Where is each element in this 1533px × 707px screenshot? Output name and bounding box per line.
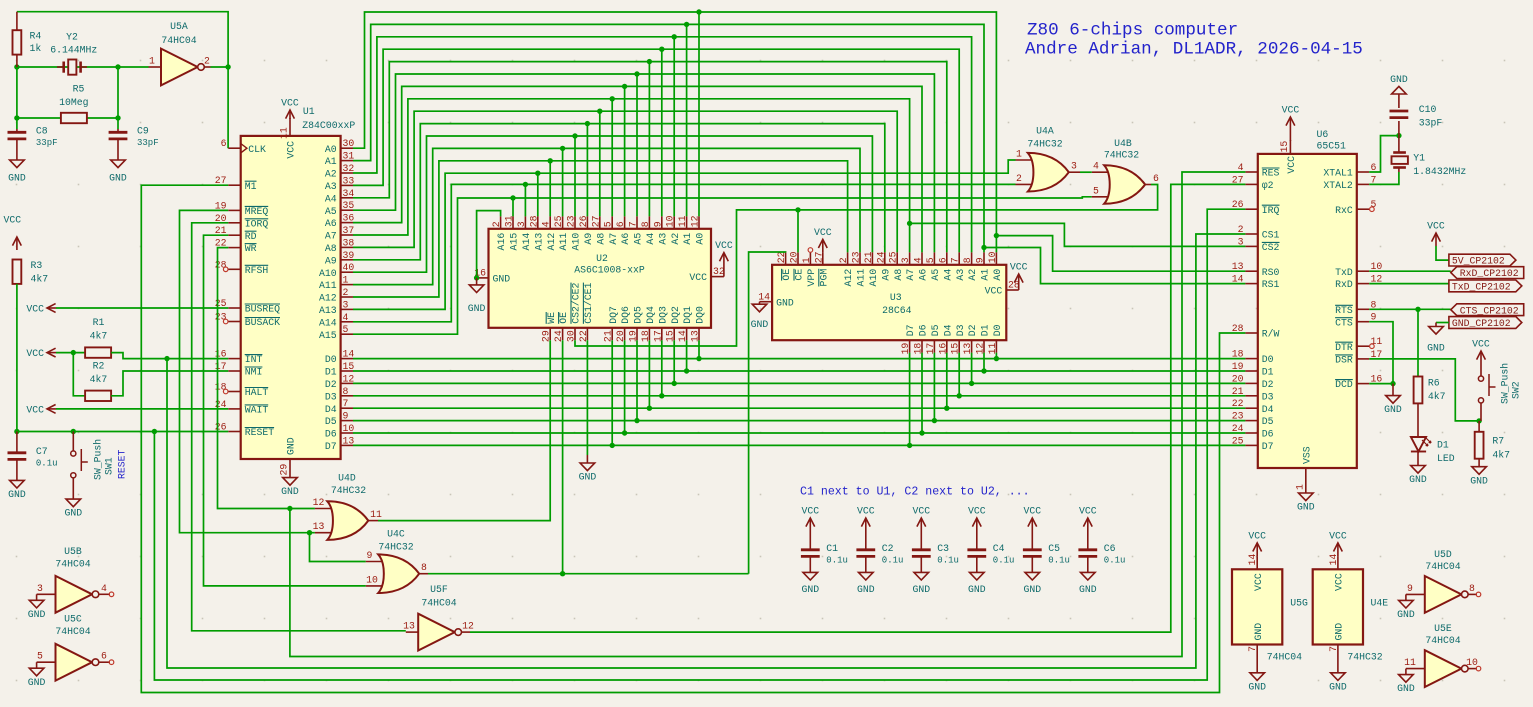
power VCC BUSREQ	[47, 307, 56, 309]
wire A13 bus	[353, 160, 1016, 309]
svg-text:U5A: U5A	[170, 21, 188, 32]
svg-text:20: 20	[1232, 373, 1244, 384]
svg-text:R7: R7	[1492, 436, 1504, 447]
svg-text:A11: A11	[856, 269, 867, 287]
svg-text:1: 1	[1016, 149, 1022, 160]
svg-text:1.8432MHz: 1.8432MHz	[1413, 166, 1466, 177]
svg-text:A1: A1	[980, 269, 991, 281]
wire RxD	[1369, 283, 1449, 285]
wire XTAL2	[1369, 172, 1399, 184]
svg-text:A14: A14	[319, 317, 337, 328]
svg-text:WAIT: WAIT	[245, 405, 269, 416]
svg-text:4k7: 4k7	[1428, 391, 1446, 402]
svg-text:D6: D6	[325, 429, 337, 440]
wire M1 to RW	[141, 185, 1245, 692]
crystal Y1	[1393, 151, 1406, 154]
svg-text:GND: GND	[1470, 475, 1488, 486]
ic U1 left pins	[228, 147, 240, 149]
svg-text:8: 8	[421, 562, 427, 573]
svg-text:17: 17	[652, 330, 663, 342]
wire A4 bus	[353, 62, 947, 253]
wire RAM OE drop	[562, 340, 564, 574]
svg-text:WE: WE	[546, 312, 557, 324]
svg-text:34: 34	[343, 188, 355, 199]
svg-text:A15: A15	[319, 330, 337, 341]
svg-text:C4: C4	[993, 543, 1005, 554]
svg-text:GND: GND	[912, 584, 930, 595]
svg-text:0.1u: 0.1u	[882, 556, 904, 566]
wire Y1 top	[1398, 136, 1400, 152]
svg-text:14: 14	[758, 291, 770, 302]
svg-text:8: 8	[343, 386, 349, 397]
svg-text:NMI: NMI	[245, 367, 263, 378]
svg-text:8: 8	[1469, 583, 1475, 594]
svg-text:C8: C8	[36, 126, 48, 137]
svg-text:DQ7: DQ7	[608, 306, 619, 324]
power VCC U1	[289, 110, 291, 119]
svg-text:U4A: U4A	[1036, 126, 1054, 137]
svg-text:GND: GND	[751, 319, 769, 330]
svg-text:5: 5	[925, 257, 936, 263]
svg-text:A1: A1	[682, 233, 693, 245]
svg-text:13: 13	[403, 621, 415, 632]
svg-text:37: 37	[343, 225, 355, 236]
svg-text:TxD_CP2102: TxD_CP2102	[1452, 282, 1511, 293]
svg-text:1: 1	[343, 275, 349, 286]
svg-text:29: 29	[279, 464, 290, 476]
svg-text:20: 20	[789, 251, 800, 263]
ic U1 right pins	[341, 147, 353, 149]
switch SW1 SW_Push	[72, 432, 74, 451]
power VCC WAIT	[47, 408, 56, 410]
svg-text:DSR: DSR	[1335, 355, 1353, 366]
svg-text:32: 32	[713, 266, 725, 277]
svg-text:RES: RES	[1262, 168, 1280, 179]
power VCC R1	[47, 352, 56, 354]
svg-text:9: 9	[975, 257, 986, 263]
svg-text:D1: D1	[1437, 440, 1449, 451]
svg-text:RESET: RESET	[117, 449, 128, 479]
svg-text:U5B: U5B	[64, 546, 82, 557]
svg-text:GND: GND	[64, 508, 82, 519]
ground C7	[16, 459, 18, 480]
power VCC U5G	[1256, 543, 1258, 557]
svg-text:GND: GND	[1397, 683, 1415, 694]
or-gate U4C 74HC32	[366, 561, 384, 563]
wire A9 bus	[353, 124, 885, 260]
svg-text:BUSACK: BUSACK	[245, 317, 280, 328]
ic U5G power unit	[1232, 569, 1282, 644]
svg-text:10: 10	[343, 423, 355, 434]
svg-text:VSS: VSS	[1301, 446, 1312, 464]
svg-text:IORQ: IORQ	[245, 218, 269, 229]
svg-text:U5D: U5D	[1434, 549, 1452, 560]
svg-text:OE: OE	[558, 312, 569, 324]
svg-text:D2: D2	[1262, 379, 1274, 390]
svg-text:D7: D7	[325, 441, 337, 452]
wire R1 to INT	[111, 353, 228, 359]
svg-text:10Meg: 10Meg	[59, 97, 89, 108]
svg-text:CS2: CS2	[1262, 242, 1280, 253]
svg-text:DQ5: DQ5	[633, 306, 644, 324]
svg-text:D3: D3	[955, 324, 966, 336]
svg-text:VCC: VCC	[1079, 506, 1097, 517]
ground SW1	[72, 498, 74, 500]
inverter U5E 74HC04	[1406, 668, 1425, 670]
svg-text:CTS_CP2102: CTS_CP2102	[1460, 305, 1519, 316]
svg-text:R1: R1	[93, 317, 105, 328]
wire DSR to SW2 R7	[1369, 359, 1479, 421]
svg-text:12: 12	[343, 373, 355, 384]
capacitor C9	[117, 129, 119, 132]
svg-text:Z80 6-chips computer: Z80 6-chips computer	[1027, 21, 1238, 41]
svg-text:17: 17	[925, 343, 936, 355]
svg-text:R/W: R/W	[1262, 329, 1280, 340]
svg-text:VCC: VCC	[814, 227, 832, 238]
svg-text:A2: A2	[967, 269, 978, 281]
svg-text:A6: A6	[918, 269, 929, 281]
svg-text:GND: GND	[1253, 623, 1264, 641]
svg-text:13: 13	[313, 521, 325, 532]
wire U5A out	[211, 67, 229, 148]
svg-text:A0: A0	[325, 144, 337, 155]
svg-text:0.1u: 0.1u	[36, 459, 58, 469]
ic U2 VCC pin 32	[711, 276, 724, 278]
ground U2 CS1	[586, 340, 588, 455]
svg-text:C10: C10	[1419, 104, 1437, 115]
svg-text:GND: GND	[8, 173, 26, 184]
wire WR to U4D	[218, 248, 315, 509]
or-gate U4D 74HC32	[315, 508, 333, 510]
svg-text:CS1/CE1: CS1/CE1	[583, 283, 594, 324]
ground U2	[476, 278, 478, 285]
svg-text:Y1: Y1	[1413, 153, 1425, 164]
svg-text:C7: C7	[36, 446, 48, 457]
wire RESET net	[17, 431, 228, 433]
svg-text:C5: C5	[1048, 543, 1060, 554]
svg-text:RS0: RS0	[1262, 267, 1280, 278]
svg-text:3: 3	[37, 583, 43, 594]
svg-text:LED: LED	[1437, 453, 1455, 464]
svg-text:D4: D4	[325, 404, 337, 415]
ic U6 right pins	[1357, 171, 1369, 173]
svg-text:0.1u: 0.1u	[826, 556, 848, 566]
svg-text:GND: GND	[1409, 474, 1427, 485]
svg-text:27: 27	[590, 215, 601, 227]
svg-text:C9: C9	[137, 126, 149, 137]
svg-text:0.1u: 0.1u	[937, 556, 959, 566]
crystal Y2	[62, 62, 65, 73]
wire RTS to R6	[1417, 309, 1419, 376]
svg-text:4: 4	[1093, 161, 1099, 172]
svg-text:12: 12	[690, 215, 701, 227]
node osc junctions	[14, 64, 19, 69]
wire A2 bus	[353, 37, 972, 253]
svg-text:74HC32: 74HC32	[1347, 652, 1382, 663]
svg-text:23: 23	[1232, 411, 1244, 422]
svg-text:U4E: U4E	[1371, 597, 1389, 608]
svg-text:GND: GND	[968, 584, 986, 595]
svg-text:VCC: VCC	[1472, 339, 1490, 350]
svg-text:74HC04: 74HC04	[161, 35, 196, 46]
svg-text:D7: D7	[905, 324, 916, 336]
svg-text:C6: C6	[1104, 543, 1116, 554]
wire A6 bus	[353, 86, 922, 252]
svg-text:GND: GND	[776, 297, 794, 308]
svg-text:10: 10	[987, 251, 998, 263]
svg-text:2: 2	[491, 221, 502, 227]
svg-text:VCC: VCC	[1010, 262, 1028, 273]
svg-text:38: 38	[343, 237, 355, 248]
svg-text:25: 25	[1232, 435, 1244, 446]
svg-text:GND: GND	[286, 437, 297, 455]
svg-text:7: 7	[1247, 646, 1258, 652]
svg-text:OE: OE	[781, 269, 792, 281]
svg-text:11: 11	[279, 127, 290, 139]
svg-text:6: 6	[615, 221, 626, 227]
svg-text:GND: GND	[1079, 584, 1097, 595]
wire osc row	[17, 66, 149, 68]
svg-text:4k7: 4k7	[90, 331, 108, 342]
svg-text:13: 13	[690, 330, 701, 342]
wire D0 bus	[353, 358, 1245, 360]
power VCC SW2	[1480, 351, 1482, 363]
capacitor C2	[865, 518, 867, 538]
svg-text:74HC32: 74HC32	[1104, 150, 1139, 161]
svg-text:4k7: 4k7	[1492, 450, 1510, 461]
resistor R3	[13, 260, 22, 284]
svg-text:23: 23	[215, 312, 227, 323]
svg-text:GND: GND	[1297, 502, 1315, 513]
ground C9	[117, 139, 119, 160]
svg-text:GND: GND	[1248, 681, 1266, 692]
svg-text:74HC32: 74HC32	[331, 485, 366, 496]
svg-text:A9: A9	[583, 233, 594, 245]
svg-text:Z84C00xxP: Z84C00xxP	[302, 120, 355, 131]
svg-text:R6: R6	[1428, 378, 1440, 389]
svg-text:A4: A4	[645, 233, 656, 245]
svg-text:25: 25	[888, 251, 899, 263]
svg-text:D4: D4	[1262, 404, 1274, 415]
svg-text:SW2: SW2	[1511, 381, 1522, 399]
ground U5C	[36, 662, 38, 668]
svg-text:A7: A7	[905, 269, 916, 281]
svg-text:39: 39	[343, 250, 355, 261]
svg-text:A11: A11	[558, 233, 569, 251]
svg-text:A15: A15	[509, 233, 520, 251]
ic U3 GND pin 14	[760, 301, 773, 303]
svg-text:R4: R4	[30, 31, 42, 42]
no-connect U3 VPP	[808, 248, 813, 253]
ic U6 65C51 body	[1258, 154, 1357, 468]
svg-text:VCC: VCC	[1334, 573, 1345, 591]
svg-text:A6: A6	[620, 233, 631, 245]
switch SW2 SW_Push	[1480, 363, 1482, 376]
wire U4C out to OE	[428, 573, 749, 575]
ic U3 28C64 body	[772, 265, 1006, 340]
svg-text:10: 10	[665, 215, 676, 227]
svg-text:7: 7	[343, 398, 349, 409]
svg-text:27: 27	[813, 251, 824, 263]
wire U3 CE riser	[797, 210, 799, 253]
inverter U5B 74HC04	[37, 593, 56, 595]
svg-text:U5G: U5G	[1290, 597, 1308, 608]
svg-text:74HC32: 74HC32	[1027, 139, 1062, 150]
svg-text:A13: A13	[319, 305, 337, 316]
svg-text:VCC: VCC	[715, 240, 733, 251]
svg-text:D3: D3	[1262, 391, 1274, 402]
wire RD to U4C	[204, 235, 366, 586]
svg-text:D2: D2	[325, 379, 337, 390]
svg-text:D2: D2	[967, 324, 978, 336]
svg-text:SW_Push: SW_Push	[93, 439, 104, 480]
svg-text:DQ0: DQ0	[695, 306, 706, 324]
wire A7 to U6 CS2	[910, 223, 1246, 246]
svg-text:3: 3	[343, 299, 349, 310]
svg-text:A10: A10	[319, 268, 337, 279]
svg-text:U4C: U4C	[387, 529, 405, 540]
svg-text:28C64: 28C64	[882, 305, 912, 316]
led D1	[1417, 403, 1419, 437]
svg-text:11: 11	[1371, 336, 1383, 347]
svg-text:U5C: U5C	[64, 614, 82, 625]
svg-text:A12: A12	[843, 269, 854, 287]
svg-text:A8: A8	[595, 233, 606, 245]
svg-text:15: 15	[1279, 141, 1290, 153]
power VCC U2	[723, 253, 725, 277]
svg-text:11: 11	[987, 343, 998, 355]
capacitor C6	[1087, 518, 1089, 538]
ground D1	[1417, 452, 1419, 466]
svg-text:DQ1: DQ1	[682, 306, 693, 324]
svg-text:A0: A0	[992, 269, 1003, 281]
svg-text:GND: GND	[1334, 623, 1345, 641]
global label CTS_CP2102	[1451, 304, 1524, 316]
svg-text:7: 7	[628, 221, 639, 227]
capacitor C8	[16, 129, 18, 132]
svg-text:RTS: RTS	[1335, 305, 1353, 316]
svg-text:VCC: VCC	[912, 506, 930, 517]
svg-text:PGM: PGM	[818, 269, 829, 287]
inverter U5D 74HC04	[1406, 593, 1425, 595]
svg-text:GND: GND	[468, 303, 486, 314]
svg-text:28: 28	[215, 259, 227, 270]
svg-text:4: 4	[913, 257, 924, 263]
svg-text:HALT: HALT	[245, 387, 269, 398]
svg-text:21: 21	[863, 251, 874, 263]
power VCC U3	[1018, 274, 1020, 290]
svg-text:4: 4	[343, 312, 349, 323]
svg-text:XTAL2: XTAL2	[1323, 180, 1353, 191]
svg-text:24: 24	[875, 251, 886, 263]
svg-text:36: 36	[343, 213, 355, 224]
svg-text:18: 18	[913, 343, 924, 355]
svg-text:RS1: RS1	[1262, 279, 1280, 290]
wire VCC to R1	[56, 352, 85, 354]
svg-text:23: 23	[566, 215, 577, 227]
svg-text:WR: WR	[245, 243, 257, 254]
svg-text:A11: A11	[319, 280, 337, 291]
svg-text:4: 4	[541, 221, 552, 227]
svg-text:A7: A7	[325, 231, 337, 242]
svg-text:9: 9	[367, 550, 373, 561]
svg-text:BUSREQ: BUSREQ	[245, 304, 280, 315]
svg-text:U4B: U4B	[1114, 138, 1132, 149]
svg-text:U6: U6	[1317, 129, 1329, 140]
svg-text:14: 14	[1232, 274, 1244, 285]
global label GND_CP2102	[1449, 317, 1522, 329]
inverter U5A 74HC04	[149, 66, 162, 68]
svg-text:D0: D0	[1262, 354, 1274, 365]
wire A0 to U6 RS0	[996, 236, 1245, 272]
svg-text:VCC: VCC	[286, 141, 297, 159]
wire A15 bus	[353, 197, 1092, 334]
svg-text:A12: A12	[319, 293, 337, 304]
svg-text:A3: A3	[955, 269, 966, 281]
svg-text:GND: GND	[493, 274, 511, 285]
ground U4E	[1337, 657, 1339, 673]
svg-text:A9: A9	[880, 269, 891, 281]
ic U1 Z84C00xxP body	[241, 136, 341, 459]
svg-text:9: 9	[343, 411, 349, 422]
wire D3 bus	[353, 395, 1245, 397]
global label TxD_CP2102	[1449, 280, 1522, 292]
svg-text:11: 11	[677, 215, 688, 227]
svg-text:18: 18	[215, 382, 227, 393]
svg-text:RFSH: RFSH	[245, 265, 269, 276]
svg-text:U2: U2	[596, 253, 608, 264]
wire R5 row	[17, 117, 118, 119]
wire RESET to IRQ	[154, 209, 1245, 680]
svg-text:D4: D4	[942, 324, 953, 336]
capacitor C7	[16, 432, 18, 453]
svg-text:12: 12	[462, 621, 474, 632]
ic U6 left pins	[1245, 171, 1257, 173]
resistor R6	[1414, 377, 1423, 404]
wire D4 bus	[353, 407, 1245, 409]
svg-text:D1: D1	[980, 324, 991, 336]
ground R7	[1478, 459, 1480, 467]
svg-text:32: 32	[343, 163, 355, 174]
wire D1 bus	[353, 370, 1245, 372]
ground U5D	[1405, 594, 1407, 600]
svg-text:RxC: RxC	[1335, 205, 1353, 216]
svg-text:74HC04: 74HC04	[55, 558, 90, 569]
svg-text:C2: C2	[882, 543, 894, 554]
svg-text:D6: D6	[1262, 429, 1274, 440]
ground U3	[759, 302, 761, 305]
resistor R4	[16, 12, 18, 31]
svg-text:13: 13	[343, 435, 355, 446]
svg-text:12: 12	[313, 497, 325, 508]
svg-text:15: 15	[950, 343, 961, 355]
wire A1 to U6 RS1	[984, 248, 1245, 284]
svg-text:SW1: SW1	[104, 457, 115, 475]
ic U3 top pins	[785, 252, 787, 264]
svg-text:5: 5	[1093, 185, 1099, 196]
svg-text:INT: INT	[245, 354, 263, 365]
svg-text:19: 19	[1232, 361, 1244, 372]
svg-text:A5: A5	[633, 233, 644, 245]
ic U1 power pins	[289, 118, 291, 136]
svg-text:40: 40	[343, 262, 355, 273]
svg-text:D0: D0	[325, 354, 337, 365]
wire D5 bus	[353, 420, 1245, 422]
wire A5 bus	[353, 74, 934, 252]
wire R3 to reset	[16, 284, 18, 432]
capacitor C4	[976, 518, 978, 538]
svg-text:VCC: VCC	[1253, 573, 1264, 591]
